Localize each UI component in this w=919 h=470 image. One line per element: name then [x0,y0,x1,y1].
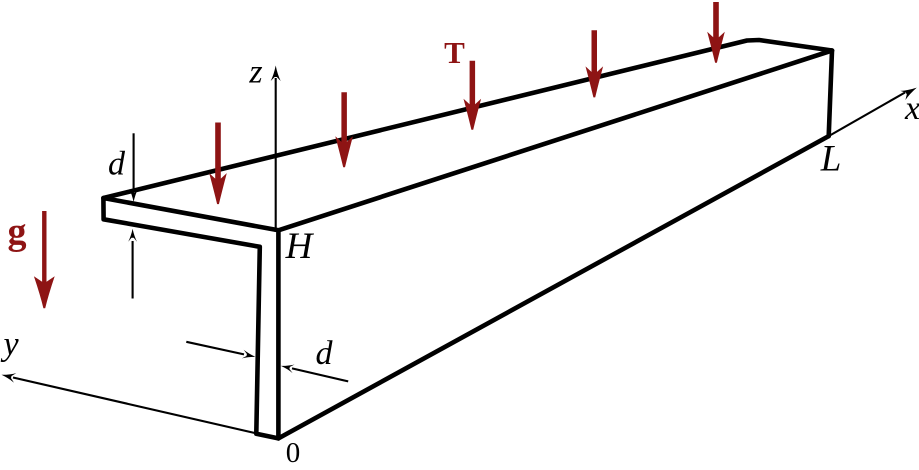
load arrow 1 [209,123,227,205]
svg-text:z: z [248,54,262,91]
far vertical edge [829,51,832,137]
svg-text:T: T [444,35,465,70]
load arrow 2 [335,92,353,167]
d (web) right leader [292,368,348,381]
gravity arrow g [34,211,55,308]
z axis [275,78,277,232]
svg-text:0: 0 [286,437,301,465]
x axis [829,93,905,137]
top-back edge + far top edge [103,40,832,198]
svg-text:d: d [108,146,126,183]
near cross-section (L-profile) [103,198,278,438]
d (flange) upper leader [133,133,135,190]
y axis [13,378,278,439]
svg-text:x: x [904,90,919,127]
svg-text:d: d [316,335,334,372]
svg-text:L: L [820,139,842,180]
d (web) left leader [186,342,244,355]
svg-text:y: y [0,326,19,363]
svg-text:H: H [285,226,315,267]
load arrow 5 [707,2,725,63]
bottom-front edge [278,136,828,438]
top-front edge [278,51,832,231]
load arrow 4 [586,30,604,97]
load arrow 3 (T) [464,61,482,130]
svg-text:g: g [8,211,27,253]
d (flange) lower leader [132,241,134,299]
